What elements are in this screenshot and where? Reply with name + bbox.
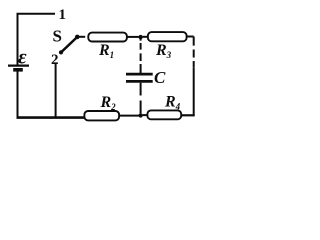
wire right branch dashed upper part [193,37,195,68]
wire left vertical from battery negative to bottom rail [17,71,19,118]
wire R2 to node B [119,115,139,117]
wire bottom-right corner to R4 [181,114,195,116]
svg-text:R2: R2 [100,94,117,112]
wire from switch pivot to resistor R1 [79,36,85,38]
svg-text:2: 2 [51,52,59,68]
svg-text:1: 1 [59,7,67,23]
resistor R4 body [147,110,181,119]
wire right branch solid lower part [193,68,195,116]
capacitor C bottom plate [126,80,153,83]
wire top-left from battery positive to contact 1 [17,13,55,65]
capacitor C top lead (dashed) from node A [140,39,142,73]
switch S pivot junction [75,35,80,40]
node B junction dot (R2-R4-C) [138,113,142,117]
resistor R1 body [88,33,127,42]
capacitor C top plate [126,73,153,76]
svg-text:C: C [154,68,166,87]
svg-text:S: S [53,27,62,46]
wire R1 to node A [127,36,139,38]
wire from contact 2 down to bottom rail [55,63,57,117]
svg-text:R4: R4 [164,93,181,111]
switch S arm (thrown toward contact 2) [61,37,77,52]
resistor R2 body [84,111,119,120]
svg-text:ε: ε [18,45,27,69]
wire R3 to top-right corner [187,36,194,38]
svg-text:R1: R1 [98,42,114,60]
capacitor C bottom lead to node B [140,83,142,114]
battery EMF source (short plate) [13,68,23,72]
resistor R3 body [148,32,187,41]
wire node B to resistor R4 [143,114,148,116]
battery EMF source (long plate) [8,64,29,66]
node A junction dot (R1-R3-C) [138,35,142,39]
wire bottom rail left segment [17,116,86,119]
wire node A to resistor R3 [143,36,148,38]
svg-text:R3: R3 [155,42,172,60]
